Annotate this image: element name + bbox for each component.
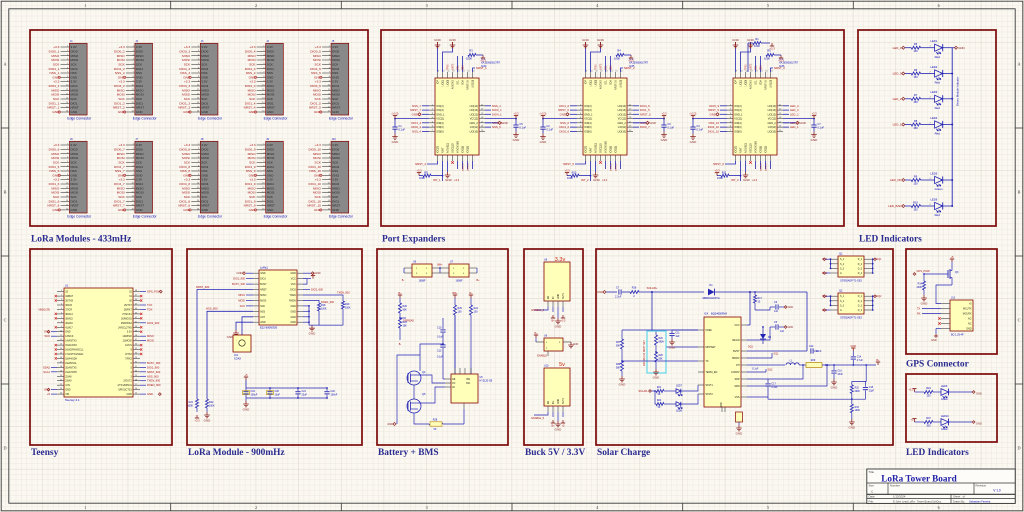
svg-text:29: 29 <box>135 375 137 377</box>
svg-text:ANT: ANT <box>260 316 265 319</box>
svg-text:BVST: BVST <box>733 350 740 353</box>
svg-text:Edge Connector: Edge Connector <box>198 215 223 219</box>
svg-text:NC: NC <box>968 318 972 321</box>
svg-text:34/BAT: 34/BAT <box>65 295 73 298</box>
svg-text:Green: Green <box>935 187 943 191</box>
svg-text:R11: R11 <box>722 171 727 175</box>
svg-text:IOC[2]: IOC[2] <box>584 105 592 108</box>
svg-text:MOSI: MOSI <box>136 191 144 195</box>
svg-text:LIO[12]: LIO[12] <box>768 113 777 116</box>
svg-text:SRP: SRP <box>734 378 739 381</box>
net ENABLE_3 label <box>531 307 548 312</box>
svg-text:+3.3: +3.3 <box>561 319 566 322</box>
svg-text:File:: File: <box>869 499 875 503</box>
svg-text:IOD[0]: IOD[0] <box>584 126 592 129</box>
svg-text:Edge Connector: Edge Connector <box>198 117 223 121</box>
svg-text:150: 150 <box>926 394 931 397</box>
SCL/SDA pull wires IC1 <box>448 56 465 72</box>
svg-text:18/A4/SDA: 18/A4/SDA <box>65 357 77 360</box>
svg-text:GND_2: GND_2 <box>469 122 478 125</box>
svg-text:Teensy: Teensy <box>31 448 59 458</box>
svg-text:26/MOSI1: 26/MOSI1 <box>121 317 132 320</box>
svg-text:LED_1: LED_1 <box>893 123 902 127</box>
svg-text:3.3V: 3.3V <box>201 178 207 182</box>
svg-text:GND: GND <box>290 316 296 319</box>
capacitor C10 0.1uF <box>437 318 446 344</box>
svg-text:VCC[1]: VCC[1] <box>436 118 444 121</box>
section box: Solar Charge <box>596 249 893 445</box>
svg-text:DIO3_3: DIO3_3 <box>766 163 768 171</box>
svg-text:SCK: SCK <box>184 62 191 66</box>
svg-text:12/MISO: 12/MISO <box>122 335 132 338</box>
svg-text:SCL: SCL <box>606 65 608 70</box>
svg-text:DQ1: DQ1 <box>877 258 883 261</box>
svg-text:GND: GND <box>260 272 266 275</box>
svg-text:0.1uF: 0.1uF <box>771 386 778 389</box>
svg-text:0.1uF: 0.1uF <box>546 128 553 132</box>
svg-text:GND: GND <box>71 110 79 114</box>
GND symbols above IC2 <box>582 38 605 72</box>
net DIO2_900 label <box>303 288 323 292</box>
svg-text:4.7uF: 4.7uF <box>857 359 864 362</box>
BMS IC U5 HY2120-CB <box>445 368 493 409</box>
svg-text:17: 17 <box>60 362 62 364</box>
svg-text:IOC[7]: IOC[7] <box>735 146 738 153</box>
svg-text:B+: B+ <box>476 279 480 282</box>
svg-text:15/A1/RX3: 15/A1/RX3 <box>65 344 77 347</box>
svg-text:MOSI: MOSI <box>267 191 275 195</box>
svg-text:NRST_6: NRST_6 <box>713 162 724 166</box>
svg-text:100K: 100K <box>209 404 215 407</box>
svg-text:EN: EN <box>548 295 550 299</box>
svg-text:90K: 90K <box>403 308 408 311</box>
svg-text:BIA: BIA <box>466 382 470 385</box>
svg-text:GND: GND <box>392 140 400 144</box>
svg-text:SCK: SCK <box>44 334 50 338</box>
net label LED_1 <box>893 123 912 127</box>
svg-text:R21: R21 <box>657 387 662 389</box>
svg-text:SCK: SCK <box>315 62 322 66</box>
MPPT divider wire <box>652 292 698 347</box>
svg-text:Teensy 4.1: Teensy 4.1 <box>65 398 80 402</box>
VCC2 decoupling cap for IC3 <box>783 111 824 141</box>
section box: Port Expanders <box>381 30 844 226</box>
section box: Teensy <box>30 249 172 445</box>
svg-text:LED2: LED2 <box>931 65 938 69</box>
svg-text:36/CR: 36/CR <box>65 304 72 307</box>
svg-text:33: 33 <box>135 357 137 359</box>
svg-text:DIO0_10: DIO0_10 <box>309 147 322 151</box>
svg-text:MISO: MISO <box>260 294 266 297</box>
edge connector J4 <box>244 40 289 121</box>
svg-text:150: 150 <box>913 49 918 53</box>
resistor R16 2 <box>630 287 704 298</box>
svg-text:D_1: D_1 <box>858 296 863 298</box>
svg-text:R32: R32 <box>855 387 860 389</box>
svg-text:Size: Size <box>869 484 875 488</box>
svg-text:Sheet of: Sheet of <box>953 495 965 499</box>
svg-text:28/RX7: 28/RX7 <box>124 308 133 311</box>
svg-text:GND: GND <box>690 140 698 144</box>
svg-text:44: 44 <box>135 308 137 310</box>
svg-text:SDA: SDA <box>462 80 465 85</box>
svg-text:LIO[10]: LIO[10] <box>768 130 777 133</box>
svg-text:DIO2_900: DIO2_900 <box>311 288 323 292</box>
svg-text:DIO0_8: DIO0_8 <box>179 147 190 151</box>
bulk capacitor bank rail <box>243 373 328 412</box>
svg-text:3.3V: 3.3V <box>136 178 142 182</box>
svg-text:NSS_5: NSS_5 <box>492 125 501 129</box>
svg-text:100K: 100K <box>916 286 922 289</box>
fuse F2 1608F <box>440 261 477 283</box>
svg-text:S_3: S_3 <box>840 305 845 307</box>
svg-text:R10: R10 <box>913 200 918 204</box>
svg-text:+3.3: +3.3 <box>480 58 486 62</box>
svg-text:B: B <box>1018 190 1021 195</box>
svg-text:2: 2 <box>61 295 62 297</box>
svg-text:MOSI: MOSI <box>182 93 190 97</box>
svg-text:GND: GND <box>267 208 275 212</box>
resistor R6 150 <box>911 68 920 79</box>
resistor R4 100K pullup <box>614 49 634 63</box>
svg-text:R27: R27 <box>616 342 621 344</box>
svg-text:7: 7 <box>61 317 62 319</box>
svg-text:Port Expanders: Port Expanders <box>382 235 446 245</box>
svg-text:25/RX6A2: 25/RX6A2 <box>121 322 133 325</box>
edge connector J7 <box>113 138 158 219</box>
svg-text:C12: C12 <box>809 345 814 348</box>
net label LED_OK <box>890 178 911 182</box>
svg-text:100: 100 <box>458 310 463 313</box>
capacitor C19 100uF <box>243 390 258 396</box>
net label NRST_1 <box>473 66 488 72</box>
svg-text:R7: R7 <box>914 93 918 97</box>
svg-text:IOD[4]: IOD[4] <box>734 122 742 125</box>
svg-text:100K: 100K <box>466 57 472 61</box>
svg-text:(+3.3): (+3.3) <box>540 111 547 115</box>
net label GND for LED bus <box>952 46 964 50</box>
svg-text:GND: GND <box>201 208 209 212</box>
svg-text:100K: 100K <box>321 307 327 310</box>
svg-text:BUSY_900: BUSY_900 <box>147 361 161 365</box>
svg-text:IOD[3]: IOD[3] <box>615 146 618 153</box>
svg-text:1/13/2024: 1/13/2024 <box>893 495 906 499</box>
LED LED4 Red <box>921 116 953 136</box>
svg-text:Edge Connector: Edge Connector <box>67 117 92 121</box>
svg-text:24: 24 <box>60 393 62 395</box>
net label B+ stack <box>398 291 402 303</box>
svg-text:IOD[5]: IOD[5] <box>760 146 763 153</box>
svg-text:26: 26 <box>135 388 137 390</box>
power +5 GPS <box>950 255 954 268</box>
svg-text:GND: GND <box>976 392 982 396</box>
svg-text:GND: GND <box>502 121 508 125</box>
svg-text:LIO[13]: LIO[13] <box>618 109 627 112</box>
svg-text:LoRa Tower Board: LoRa Tower Board <box>881 474 956 484</box>
wires BMS <box>420 315 455 379</box>
svg-text:LD: LD <box>452 387 455 389</box>
svg-text:LED_3: LED_3 <box>893 72 902 76</box>
resistor R9 100K INT pull <box>416 161 459 182</box>
svg-text:IOC[2]: IOC[2] <box>436 105 444 108</box>
svg-text:DIO0_5: DIO0_5 <box>310 49 321 53</box>
svg-text:GND: GND <box>332 110 340 114</box>
svg-text:18: 18 <box>60 366 62 368</box>
svg-text:R29: R29 <box>811 359 816 362</box>
svg-text:MISO: MISO <box>147 334 154 338</box>
svg-text:Red: Red <box>935 213 941 217</box>
LoRa E22-900M30S module LoRa1 <box>253 266 303 330</box>
resistor R22 100K <box>204 399 215 422</box>
svg-text:+3.3: +3.3 <box>778 58 784 62</box>
VCC2 decoupling cap for IC1 <box>485 111 526 141</box>
svg-text:DIO0_6: DIO0_6 <box>559 129 569 133</box>
svg-text:43: 43 <box>135 313 137 315</box>
svg-text:7/RX2: 7/RX2 <box>125 357 132 360</box>
svg-text:100K: 100K <box>187 404 193 407</box>
LED LED3 Red <box>921 90 953 110</box>
svg-text:LIO[1]: LIO[1] <box>442 80 445 87</box>
svg-text:LIO[15]: LIO[15] <box>472 80 475 88</box>
resistor R24b 5K <box>656 400 676 409</box>
svg-text:100: 100 <box>474 310 479 313</box>
svg-text:LIO[1]: LIO[1] <box>590 80 593 87</box>
svg-text:VREF: VREF <box>705 329 712 332</box>
LoRa VCC wires +5 <box>303 271 315 284</box>
svg-text:GND: GND <box>332 208 340 212</box>
svg-text:LINT0: LINT0 <box>453 63 455 70</box>
svg-text:LIO[15]: LIO[15] <box>770 80 773 88</box>
edge connector J8 <box>178 138 223 219</box>
svg-text:ENABLE_3: ENABLE_3 <box>531 309 544 312</box>
svg-text:34: 34 <box>135 353 137 355</box>
svg-text:GPS_POW: GPS_POW <box>917 269 931 273</box>
svg-text:BQ24650RVA: BQ24650RVA <box>711 312 727 316</box>
svg-text:U1: U1 <box>65 284 69 288</box>
svg-text:TXEN_900: TXEN_900 <box>337 290 350 294</box>
svg-text:LIO[13]: LIO[13] <box>470 109 479 112</box>
Teensy 4.1 module U1 <box>57 284 140 403</box>
svg-text:R28: R28 <box>433 418 438 421</box>
svg-text:SQ1: SQ1 <box>774 353 779 356</box>
resistor R30 56K <box>616 361 626 386</box>
svg-text:R6: R6 <box>914 68 918 72</box>
svg-text:6: 6 <box>61 313 62 315</box>
svg-text:C2: C2 <box>546 124 550 128</box>
svg-text:OSC[1]O: OSC[1]O <box>600 143 603 153</box>
svg-text:29/TX7: 29/TX7 <box>124 304 132 307</box>
svg-text:39: 39 <box>135 330 137 332</box>
svg-text:PH: PH <box>736 364 740 367</box>
svg-text:GND: GND <box>290 310 296 313</box>
svg-text:SCL: SCL <box>756 65 758 70</box>
svg-text:B-: B- <box>399 343 402 346</box>
svg-text:G.1uF: G.1uF <box>752 368 759 370</box>
svg-text:IOD[5]: IOD[5] <box>610 146 613 153</box>
svg-text:OC: OC <box>452 383 456 385</box>
svg-text:22uF: 22uF <box>302 393 308 396</box>
svg-text:100K: 100K <box>567 176 573 180</box>
svg-text:MOSI: MOSI <box>267 93 275 97</box>
svg-text:IOC[7]: IOC[7] <box>437 146 440 153</box>
svg-text:0.1uF: 0.1uF <box>696 128 703 132</box>
svg-text:Edge Connector: Edge Connector <box>264 117 289 121</box>
svg-text:1: 1 <box>84 3 86 8</box>
svg-text:LIO[14]: LIO[14] <box>618 105 627 108</box>
svg-text:1/TX1/MISO1: 1/TX1/MISO1 <box>117 384 132 387</box>
svg-text:LIO[11]: LIO[11] <box>618 126 626 129</box>
svg-text:INT_2: INT_2 <box>581 178 589 182</box>
edge connector J6 <box>47 138 92 219</box>
svg-text:TP00: TP00 <box>448 64 450 70</box>
svg-text:Number: Number <box>890 484 900 488</box>
svg-text:1uF: 1uF <box>774 310 779 313</box>
svg-text:GND: GND <box>661 138 669 142</box>
svg-text:3: 3 <box>61 299 62 301</box>
resistor R23b 150 <box>924 387 941 398</box>
resistor R28b 56K MPPT <box>653 352 664 379</box>
svg-text:MOSI: MOSI <box>313 93 321 97</box>
svg-text:LIO[0]: LIO[0] <box>595 80 598 87</box>
resistor R5 150 <box>911 42 920 53</box>
svg-text:5: 5 <box>767 3 769 8</box>
svg-text:B+: B+ <box>876 359 880 362</box>
svg-text:TERM_EN: TERM_EN <box>705 371 717 374</box>
svg-text:1uF: 1uF <box>675 335 680 338</box>
svg-text:13/SCK: 13/SCK <box>65 335 74 338</box>
svg-text:3.3V: 3.3V <box>136 80 142 84</box>
svg-text:INT_3: INT_3 <box>731 178 739 182</box>
svg-text:22/A8: 22/A8 <box>65 375 72 378</box>
junction <box>951 179 953 181</box>
svg-text:14: 14 <box>60 348 62 350</box>
svg-text:D_4: D_4 <box>858 273 863 275</box>
svg-text:0.1uF: 0.1uF <box>817 126 824 130</box>
svg-text:LED1: LED1 <box>931 39 938 43</box>
svg-text:D: D <box>3 446 6 451</box>
svg-text:VCC[2]: VCC[2] <box>470 118 478 121</box>
svg-text:GND: GND <box>966 328 972 331</box>
svg-text:+3.3: +3.3 <box>564 168 570 172</box>
resistor R26 90K <box>399 303 408 319</box>
svg-text:DIO1_900: DIO1_900 <box>147 365 160 369</box>
svg-text:B+: B+ <box>398 291 402 295</box>
LED9 Green <box>941 385 982 401</box>
svg-text:3.3V: 3.3V <box>267 178 273 182</box>
svg-text:LINT0: LINT0 <box>751 63 753 70</box>
svg-text:VSS: VSS <box>735 396 740 399</box>
capacitor C16 10nF <box>831 364 844 389</box>
svg-text:SI7050ADP-T1-GE3: SI7050ADP-T1-GE3 <box>840 280 862 283</box>
svg-text:MOSI: MOSI <box>332 93 340 97</box>
svg-text:LODRV: LODRV <box>731 371 740 374</box>
net label LED_4 <box>893 46 912 50</box>
svg-text:Revision: Revision <box>976 484 987 488</box>
solar charge IC4 BQ24650RVA <box>698 312 747 413</box>
port expander IC3 XL9535 <box>727 57 799 161</box>
svg-text:NRST_900: NRST_900 <box>147 370 161 374</box>
net label LED_2 <box>893 97 912 101</box>
svg-text:D_4: D_4 <box>858 310 863 312</box>
svg-text:A: A <box>1017 62 1020 67</box>
svg-text:GND: GND <box>788 306 794 309</box>
svg-text:GND: GND <box>736 431 744 435</box>
net label BM+ <box>437 264 443 273</box>
svg-text:300: 300 <box>926 424 931 427</box>
svg-text:2: 2 <box>255 3 257 8</box>
svg-text:3.3V: 3.3V <box>267 80 273 84</box>
resistor R9 150 <box>911 174 920 185</box>
Teensy unconnected pin crosses <box>55 295 143 360</box>
svg-text:SCK: SCK <box>332 62 338 66</box>
LoRa right GND wire <box>303 271 321 275</box>
right net labels IC1 <box>485 104 503 129</box>
svg-text:NINT: NINT <box>442 147 445 153</box>
svg-text:LIO[10]: LIO[10] <box>470 130 479 133</box>
capacitor C12 10nF <box>747 292 822 354</box>
svg-text:GND_2: GND_2 <box>617 122 626 125</box>
net NSS_900 wire <box>206 307 253 399</box>
svg-text:GND: GND <box>593 178 601 182</box>
net label GPS_POW <box>913 269 930 275</box>
svg-text:GND: GND <box>931 338 937 342</box>
svg-text:48: 48 <box>135 290 137 292</box>
svg-text:35: 35 <box>135 348 137 350</box>
svg-text:DIO3_2: DIO3_2 <box>616 163 618 171</box>
svg-text:S_2: S_2 <box>840 264 845 266</box>
edge connector J10 <box>307 138 353 219</box>
svg-text:SDA2: SDA2 <box>43 365 51 369</box>
section box: Buck 5V / 3.3V <box>524 249 583 445</box>
svg-text:DIO0: DIO0 <box>201 147 208 151</box>
svg-text:Red: Red <box>935 55 941 59</box>
svg-text:V/3GND[4]: V/3GND[4] <box>755 141 758 153</box>
svg-text:LoRa1: LoRa1 <box>260 266 268 270</box>
svg-text:IN: IN <box>553 296 555 299</box>
svg-text:R5: R5 <box>914 42 918 46</box>
feedback divider R33 100K <box>848 399 860 429</box>
svg-text:+3.3: +3.3 <box>53 178 59 182</box>
load switch U9 <box>534 332 579 358</box>
svg-text:E-John Lead LoRa - Tower Board: E-John Lead LoRa - Tower Board.SchDoc <box>893 499 942 503</box>
svg-text:TX: TX <box>705 360 709 363</box>
svg-text:LIO[13]: LIO[13] <box>768 109 777 112</box>
svg-text:+3.3: +3.3 <box>602 178 608 182</box>
svg-text:Edge Connector: Edge Connector <box>329 215 354 219</box>
LED10 Green <box>941 415 982 431</box>
svg-text:LIO[11]: LIO[11] <box>470 126 478 129</box>
svg-text:DIO1: DIO1 <box>260 278 266 281</box>
svg-text:19/A5/SCL: 19/A5/SCL <box>65 362 77 365</box>
svg-text:SDA: SDA <box>610 80 613 85</box>
LoRa left net labels <box>232 271 253 308</box>
svg-text:C18: C18 <box>869 387 874 389</box>
resistor R14 100K <box>916 274 928 305</box>
svg-text:SCK: SCK <box>315 160 322 164</box>
svg-text:R4: R4 <box>617 49 621 53</box>
svg-text:SCK: SCK <box>53 62 60 66</box>
svg-text:10: 10 <box>60 330 62 332</box>
capacitor C17 0.1uF <box>765 379 778 391</box>
svg-text:+3.3: +3.3 <box>315 178 321 182</box>
svg-text:C: C <box>4 318 7 323</box>
svg-text:3: 3 <box>426 505 428 510</box>
svg-text:LINT0: LINT0 <box>601 63 603 70</box>
SRP SRN sense wires <box>747 364 828 386</box>
svg-text:+3.3: +3.3 <box>53 80 59 84</box>
svg-text:LIO[12]: LIO[12] <box>618 113 627 116</box>
svg-text:SQ2: SQ2 <box>768 369 773 372</box>
